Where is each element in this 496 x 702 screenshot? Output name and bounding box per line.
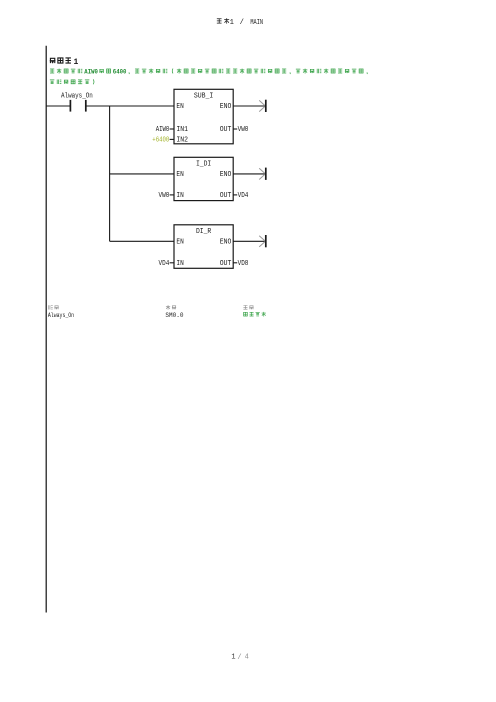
operand +6400 -> IN2 (green constant): [152, 137, 174, 145]
svg-text:IN1: IN1: [176, 126, 188, 134]
function block U1 SUB_I: [174, 89, 233, 144]
svg-text:IN: IN: [176, 192, 183, 200]
svg-text:AIW0: AIW0: [156, 126, 170, 134]
symbol row: Always_On: [48, 312, 74, 320]
svg-text:+6400: +6400: [152, 137, 169, 145]
wire: contact to SUB_I EN (rung 1): [86, 105, 174, 107]
svg-text:1: 1: [230, 19, 234, 27]
svg-text:ENO: ENO: [220, 171, 232, 179]
svg-text:VW0: VW0: [238, 126, 249, 134]
open wire arrow (rung 3 ENO): [233, 235, 266, 247]
svg-text:IN2: IN2: [176, 137, 188, 145]
open wire arrow (rung 1 ENO): [233, 100, 266, 112]
symbol table header 地址 (gray): [166, 305, 176, 310]
svg-text:OUT: OUT: [220, 260, 232, 268]
wire: branch to I_DI EN (rung 2): [110, 173, 174, 175]
operand AIW0 -> IN1: [156, 126, 174, 134]
svg-text:VD8: VD8: [238, 260, 249, 268]
operand OUT -> VW0: [233, 126, 248, 134]
svg-text:VD4: VD4: [238, 192, 249, 200]
svg-text:I_DI: I_DI: [196, 161, 211, 169]
svg-text:SM0.0: SM0.0: [165, 312, 183, 320]
svg-text:ENO: ENO: [220, 103, 232, 111]
svg-text:DI_R: DI_R: [196, 228, 212, 236]
svg-text:/: /: [237, 654, 241, 662]
svg-text:OUT: OUT: [220, 126, 232, 134]
symbol row comment: 始终接通 (green): [244, 312, 266, 317]
svg-text:IN: IN: [176, 260, 183, 268]
svg-text:VW0: VW0: [159, 192, 170, 200]
svg-text:OUT: OUT: [220, 192, 232, 200]
svg-text:1: 1: [74, 58, 79, 67]
symbol row: SM0.0: [165, 312, 183, 320]
svg-text:Always_On: Always_On: [48, 312, 74, 320]
svg-text:EN: EN: [176, 103, 183, 111]
svg-text:MAIN: MAIN: [250, 19, 263, 27]
svg-text:ENO: ENO: [220, 238, 232, 246]
svg-text:SUB_I: SUB_I: [194, 93, 214, 101]
svg-text:6400: 6400: [113, 69, 127, 76]
network comment line 1 (green): 模拟量输入AIW0减去6400，转换为实数（由于没有直接将整数转换为实数的指令，故先将其转换为双整数，: [50, 69, 367, 76]
wire: branch to DI_R EN (rung 3): [110, 240, 174, 242]
svg-text:VD4: VD4: [159, 260, 170, 268]
wire: branch vertical (junction to rungs 2,3): [109, 106, 111, 241]
operand VW0 -> IN: [159, 192, 175, 200]
svg-text:EN: EN: [176, 171, 183, 179]
svg-text:EN: EN: [176, 238, 183, 246]
symbol table header 注释 (gray): [243, 305, 253, 309]
operand OUT -> VD8: [233, 260, 248, 268]
symbol table header 符号 (gray): [49, 305, 59, 309]
operand VD4 -> IN: [159, 260, 175, 268]
network title 程序段 1: [50, 58, 79, 67]
svg-text:1: 1: [231, 654, 235, 662]
network left border rail (power rail): [45, 46, 47, 613]
page footer: 1 / 4: [231, 654, 248, 662]
page header: project title 项目1 / MAIN: [217, 18, 263, 27]
open wire arrow (rung 2 ENO): [233, 168, 266, 180]
operand OUT -> VD4: [233, 192, 248, 200]
contact Always_On label: [61, 93, 93, 101]
svg-text:/: /: [240, 19, 244, 27]
svg-text:AIW0: AIW0: [84, 69, 98, 76]
wire: rail to contact (rung 1): [46, 105, 70, 107]
function block U3 DI_R: [174, 225, 233, 268]
contact Always_On (normally open): [70, 100, 85, 112]
function block U2 I_DI: [174, 157, 233, 200]
svg-text:4: 4: [245, 654, 249, 662]
svg-text:Always_On: Always_On: [61, 93, 93, 101]
network comment line 2 (green): 再转换为实数): [50, 79, 94, 84]
